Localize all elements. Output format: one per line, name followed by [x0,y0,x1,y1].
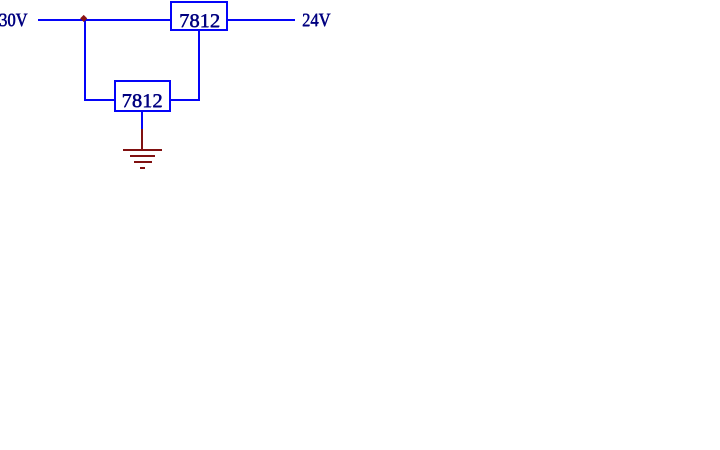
regulator U2 7812 (lower box) [114,80,171,112]
wire: 30V input horizontal segment [38,19,170,21]
ground symbol bar 4 [140,167,145,169]
wire: dark red segment to ground [141,129,143,149]
ground symbol bar 3 [134,161,152,163]
regulator U1 7812 (upper box) [170,1,228,31]
junction: input node diamond [80,15,88,23]
wire: blue segment below U2 ground pin [141,112,143,130]
wire: horizontal from U2 output to vertical riser [171,99,200,101]
ground symbol bar 1 [123,149,163,151]
wire: horizontal into lower regulator input [84,99,114,101]
ground symbol bar 2 [130,155,156,157]
value label 7812 of U1 [179,11,220,31]
wire: vertical from U1 bottom pin [198,31,200,101]
wire: vertical drop from junction [84,20,86,101]
wire: output horizontal to 24V [228,19,295,21]
value label 7812 of U2 [122,91,163,111]
node 30V label [0,11,27,30]
node 24V label [302,11,330,30]
